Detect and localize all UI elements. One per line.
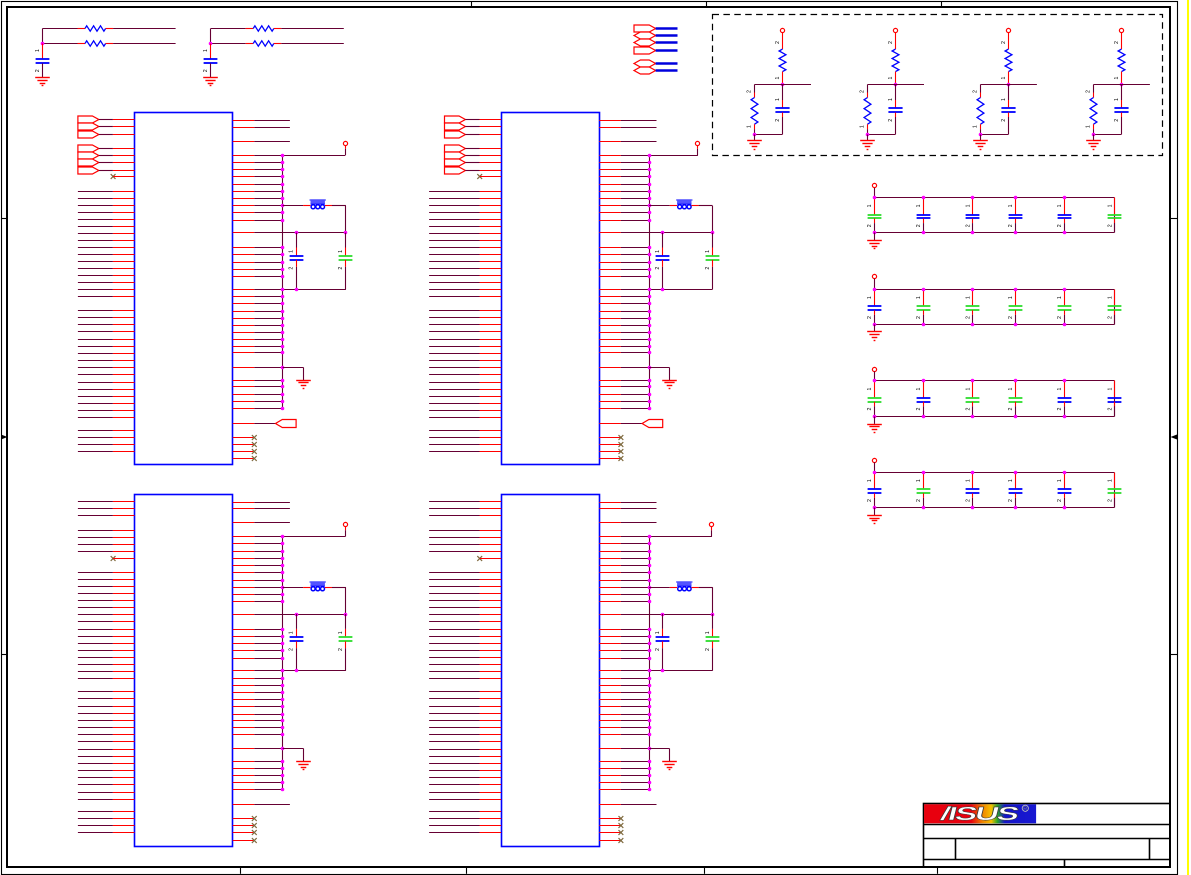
junction bank4 bottom 4 <box>1014 506 1018 510</box>
wire U4 right pin 23 <box>599 692 621 694</box>
svg-text:1: 1 <box>867 388 873 391</box>
wire U2 right pin 10 <box>599 198 621 200</box>
wire U3 left pin 1 <box>78 501 113 503</box>
junction U3 pin 10 <box>281 579 285 583</box>
wire U3 right pin 21 <box>233 678 255 680</box>
svg-text:1: 1 <box>888 76 894 79</box>
svg-text:1: 1 <box>1008 388 1014 391</box>
junction termination 2 <box>894 83 898 87</box>
junction U2 pin 23 <box>648 310 652 314</box>
wire U4 right pin 25 <box>599 706 621 708</box>
wire U3 right pin 9 <box>233 572 255 574</box>
junction U4 pin 22 <box>648 684 652 688</box>
wire U2 right pin 12 <box>599 212 621 214</box>
wire U1 left pin 29 <box>78 339 113 341</box>
junction bank3 top 3 <box>971 379 975 383</box>
yellow margin line <box>1187 0 1189 875</box>
wire U3 left pin 31 <box>78 734 113 736</box>
wire termination 4 output <box>1122 84 1150 86</box>
wire U4 right pin 20 decoupling rail bottom <box>599 670 621 672</box>
svg-text:2: 2 <box>966 499 972 502</box>
junction U1 pin 22 <box>281 302 285 306</box>
capacitor C U3 decoupling 1 <box>296 614 298 629</box>
U1 left pin 8 no-connect <box>111 174 116 179</box>
junction bank1 bottom 1 <box>873 231 877 235</box>
junction U3 pin 19 <box>281 657 285 661</box>
svg-text:2: 2 <box>1001 119 1007 122</box>
svg-text:2: 2 <box>1001 41 1007 44</box>
wire U4 left pin 10 <box>429 579 479 581</box>
wire U1 left pin 21 <box>78 275 113 277</box>
wire U4 right pin 24 <box>599 699 621 701</box>
zone tick bottom 2 <box>466 867 468 874</box>
wire U3 right pin 8 <box>233 565 255 567</box>
svg-text:1: 1 <box>867 204 873 207</box>
U3 right pin 37 no-connect <box>233 818 254 820</box>
wire termination 4 left branch <box>1094 84 1122 86</box>
capacitor C bank4 6 <box>1114 473 1116 490</box>
wire U2 right pin 34 <box>599 401 621 403</box>
wire U3 left pin 30 <box>78 727 113 729</box>
wire U3 left pin 12 <box>78 593 113 595</box>
junction U1 pin 27 <box>281 338 285 342</box>
capacitor C bank4 4 <box>1015 473 1017 490</box>
wire U4 left pin 43 <box>429 825 479 827</box>
U4 right pin 38 no-connect <box>599 825 620 827</box>
wire U1 left pin 18 <box>78 254 113 256</box>
wire U2 right pin 13 <box>599 220 621 222</box>
off-page connector symbol 2 <box>634 32 656 39</box>
wire cap bank 1 bottom rail <box>875 232 1115 234</box>
off-page connector symbol 3 <box>634 39 656 46</box>
resistor R termination 2 <box>867 93 869 98</box>
wire bank 3 to ground <box>874 417 876 424</box>
junction U1 pin 16 <box>281 253 285 257</box>
wire U3 left pin 29 <box>78 720 113 722</box>
wire U1 right pin 29 <box>233 352 255 354</box>
wire U2 left pin 18 <box>429 254 479 256</box>
junction U1 pin 26 <box>281 331 285 335</box>
wire U4 left pin 31 <box>429 734 479 736</box>
junction bank1 bottom 2 <box>922 231 926 235</box>
svg-text:2: 2 <box>867 499 873 502</box>
junction bank3 bottom 3 <box>971 415 975 419</box>
junction U2 pin 31 <box>648 379 652 383</box>
junction U2 bus row1 <box>648 154 652 158</box>
svg-text:2: 2 <box>867 316 873 319</box>
zone tick top 3 <box>941 1 943 7</box>
wire U1 right pin 1 <box>233 120 255 122</box>
junction U2 pin 6 <box>648 168 652 172</box>
output flag connector U1 <box>276 420 297 428</box>
wire U4 right pin 6 <box>599 551 621 553</box>
svg-text:1: 1 <box>289 250 295 253</box>
wire bank 1 to ground <box>874 233 876 241</box>
wire U2 left pin 11 <box>429 205 479 207</box>
capacitor C bank1 3 <box>972 198 974 215</box>
junction U4 cap1 bottom <box>661 669 665 673</box>
junction bank3 top 5 <box>1063 379 1067 383</box>
wire U2 right pin 14 decoupling rail top <box>599 232 621 234</box>
svg-text:2: 2 <box>1008 224 1014 227</box>
capacitor C bank1 4 <box>1015 198 1017 215</box>
wire U1 right pin 28 <box>233 346 255 348</box>
wire U2 left pin 41 <box>429 430 479 432</box>
junction U2 pin 9 <box>648 190 652 194</box>
wire cap bank 1 right edge <box>1114 198 1116 233</box>
bus stub wire 3 <box>656 41 678 44</box>
junction U2 pin 34 <box>648 400 652 404</box>
wire U2 left pin 35 <box>429 382 479 384</box>
wire U3 left pin 5 <box>78 537 113 539</box>
wire U3 left pin 14 <box>78 607 113 609</box>
svg-text:1: 1 <box>747 125 753 128</box>
junction U4 pin 8 <box>648 564 652 568</box>
svg-text:2: 2 <box>1114 41 1120 44</box>
junction U4 pin 15 <box>648 628 652 632</box>
terminal circle cap bank 2 <box>872 274 876 278</box>
junction bank2 bottom 2 <box>922 323 926 327</box>
zone tick bottom 4 <box>937 867 939 874</box>
U3 right pin 40 no-connect <box>233 840 254 842</box>
wire U1 left pin 19 <box>78 261 113 263</box>
title block divider 2 <box>924 838 1171 840</box>
svg-text:2: 2 <box>289 648 295 651</box>
wire RC2 lower out <box>274 43 282 45</box>
junction U2 cap1 top <box>661 231 665 235</box>
junction U4 pin 25 <box>648 705 652 709</box>
svg-text:1: 1 <box>1001 98 1007 101</box>
junction U3 pin 27 <box>281 719 285 723</box>
wire U2 left pin 13 <box>429 219 479 221</box>
wire U2 right pin 1 <box>599 120 621 122</box>
junction U4 cap2 top <box>711 613 715 617</box>
wire U2 right pin 32 <box>599 386 621 388</box>
U2 left pin 5 input flag connector <box>445 152 466 159</box>
wire U3 right pin 4 to terminal <box>233 536 255 538</box>
junction U3 pin 8 <box>281 564 285 568</box>
wire U4 left pin 36 <box>429 770 479 772</box>
junction RC1 <box>41 42 45 46</box>
wire U4 right pin 27 <box>599 720 621 722</box>
wire U1 left pin 22 <box>78 282 113 284</box>
junction bank2 bottom 3 <box>971 323 975 327</box>
wire U3 to ground <box>283 748 304 750</box>
wire termination 2 left branch <box>868 84 896 86</box>
dashed enclosure box <box>713 15 1163 156</box>
junction bank3 top 2 <box>922 379 926 383</box>
wire U1 left pin 33 <box>78 367 113 369</box>
wire U2 left pin 38 <box>429 403 479 405</box>
ground U3 <box>296 761 311 763</box>
wire ferrite bead to cap branch U3 <box>325 587 332 589</box>
svg-text:2: 2 <box>916 499 922 502</box>
svg-text:2: 2 <box>775 41 781 44</box>
wire RC1 lower out <box>106 43 114 45</box>
title block cell line a <box>955 838 957 860</box>
wire U3 right pin 15 <box>233 629 255 631</box>
wire U3 right pin 31 <box>233 761 255 763</box>
wire U1 left pin 16 <box>78 240 113 242</box>
svg-text:1: 1 <box>1114 76 1120 79</box>
wire U1 right pin 7 <box>233 176 255 178</box>
wire U2 left pin 12 <box>429 212 479 214</box>
wire U1 right pin 35 <box>233 408 255 410</box>
resistor R termination 1 <box>754 93 756 98</box>
junction U1 pin 29 <box>281 351 285 355</box>
wire U1 left pin 13 <box>78 219 113 221</box>
capacitor C U1 decoupling 1 <box>296 233 298 248</box>
wire U3 right pin 6 <box>233 551 255 553</box>
wire U3 right pin 7 <box>233 558 255 560</box>
junction termination 2 ground node <box>866 133 870 137</box>
wire U3 right pin 17 <box>233 643 255 645</box>
wire U4 right pin 16 <box>599 636 621 638</box>
svg-text:1: 1 <box>1086 125 1092 128</box>
junction U4 pin 30 <box>648 747 652 751</box>
wire U1 right pin 33 <box>233 394 255 396</box>
wire U4 right pin 19 <box>599 658 621 660</box>
U1 right pin 37 no-connect <box>233 437 254 439</box>
wire U2 left pin 43 <box>429 444 479 446</box>
wire U4 left pin 25 <box>429 691 479 693</box>
wire U4 left pin 44 <box>429 832 479 834</box>
junction bank1 top 4 <box>1014 196 1018 200</box>
wire U2 right pin 7 <box>599 176 621 178</box>
wire U3 right pin 23 <box>233 692 255 694</box>
wire U2 right pin 35 <box>599 408 621 410</box>
svg-text:1: 1 <box>966 296 972 299</box>
svg-text:2: 2 <box>289 267 295 270</box>
wire U1 left pin 3 <box>99 134 113 136</box>
junction U2 pin 18 <box>648 268 652 272</box>
wire U2 left pin 6 <box>465 162 479 164</box>
wire U2 right pin 28 <box>599 346 621 348</box>
wire to ground termination 2 <box>867 135 869 141</box>
terminal circle termination 3 <box>1006 28 1010 32</box>
wire U2 left pin 37 <box>429 396 479 398</box>
bus stub wire 1 <box>656 27 678 30</box>
junction U4 pin 5 <box>648 542 652 546</box>
capacitor C bank1 5 <box>1064 198 1066 215</box>
junction U1 bus row1 <box>281 154 285 158</box>
off-page connector symbol 4 <box>634 47 656 54</box>
capacitor C U4 decoupling 2 <box>712 614 714 629</box>
wire U3 right pin 5 <box>233 543 255 545</box>
wire U3 left pin 2 <box>78 508 113 510</box>
wire U3 left pin 15 <box>78 614 113 616</box>
wire U2 right pin 23 <box>599 311 621 313</box>
junction U3 pin 16 <box>281 635 285 639</box>
junction U3 cap2 top <box>344 613 348 617</box>
capacitor C U3 decoupling 2 <box>345 614 347 629</box>
wire U3 right pin 35 <box>233 789 255 791</box>
junction U1 pin 17 <box>281 261 285 265</box>
wire U1 left pin 4 <box>99 148 113 150</box>
junction U4 cap1 top <box>661 613 665 617</box>
wire RC1 upper out <box>106 28 114 30</box>
junction U4 pin 11 <box>648 586 652 590</box>
wire termination 1 bottom <box>755 134 783 136</box>
ground cap bank 3 <box>867 424 882 426</box>
wire termination 2 bottom <box>868 134 896 136</box>
junction U1 pin 7 <box>281 175 285 179</box>
svg-text:1: 1 <box>966 479 972 482</box>
svg-text:1: 1 <box>775 98 781 101</box>
wire U1 left pin 35 <box>78 382 113 384</box>
wire U1 right pin 26 <box>233 332 255 334</box>
wire U3 left pin 19 <box>78 643 113 645</box>
wire U3 left pin 3 <box>78 515 113 517</box>
wire U1 power bus vertical <box>282 155 284 408</box>
U1 left pin 1 input flag connector <box>78 116 99 123</box>
svg-text:1: 1 <box>916 388 922 391</box>
junction bank1 top 2 <box>922 196 926 200</box>
wire U1 left pin 10 <box>78 198 113 200</box>
resistor R lower RC1 <box>85 41 106 46</box>
junction bank1 bottom 3 <box>971 231 975 235</box>
wire U3 right pin 29 <box>233 734 255 736</box>
wire U4 left pin 23 <box>429 671 479 673</box>
junction U1 pin 28 <box>281 345 285 349</box>
wire U4 left pin 27 <box>429 706 479 708</box>
svg-text:2: 2 <box>705 267 711 270</box>
wire U4 left pin 14 <box>429 607 479 609</box>
wire U3 left pin 42 <box>78 818 113 820</box>
junction U3 pin 35 <box>281 788 285 792</box>
wire U4 right pin 7 <box>599 558 621 560</box>
wire RC2 lower net <box>211 43 246 45</box>
junction U2 pin 26 <box>648 331 652 335</box>
wire termination 3 output <box>1009 84 1037 86</box>
title block divider 3 <box>924 859 1171 861</box>
wire U3 left pin 27 <box>78 706 113 708</box>
svg-text:2: 2 <box>888 41 894 44</box>
junction bank1 bottom 5 <box>1063 231 1067 235</box>
capacitor C bank2 4 <box>1015 290 1017 307</box>
wire U3 right pin 27 <box>233 720 255 722</box>
resistor R termination 4 <box>1093 93 1095 98</box>
wire termination 2 output <box>896 84 925 86</box>
wire cap bank 1 top rail <box>875 197 1115 199</box>
U1 left pin 3 input flag connector <box>78 131 99 138</box>
wire U2 left pin 31 <box>429 353 479 355</box>
junction U4 pin 17 <box>648 642 652 646</box>
wire U3 right pin 30 ground feed <box>233 748 255 750</box>
wire U1 right pin 11 inductor feed <box>233 205 255 207</box>
U2 right pin 40 no-connect <box>599 458 620 460</box>
wire U4 right pin 18 <box>599 650 621 652</box>
junction U3 pin 30 <box>281 747 285 751</box>
capacitor C RC filter 2 <box>210 44 212 60</box>
junction U1 pin 31 <box>281 379 285 383</box>
wire U1 right pin 19 <box>233 276 255 278</box>
capacitor C termination 2 <box>895 85 897 101</box>
junction bank2 top 4 <box>1014 288 1018 292</box>
zone tick right 2 <box>1170 654 1177 656</box>
wire cap bank 3 bottom rail <box>875 416 1115 418</box>
junction bank3 bottom 4 <box>1014 415 1018 419</box>
wire cap bank 3 right edge <box>1114 381 1116 417</box>
svg-text:1: 1 <box>860 125 866 128</box>
wire U4 left pin 28 <box>429 713 479 715</box>
wire U2 left pin 14 <box>429 226 479 228</box>
wire termination 1 output <box>783 84 812 86</box>
svg-text:2: 2 <box>655 648 661 651</box>
wire U3 right pin 1 <box>233 502 255 504</box>
svg-text:1: 1 <box>1008 479 1014 482</box>
wire U3 left pin 40 <box>78 799 113 801</box>
wire U2 left pin 36 <box>429 389 479 391</box>
terminal circle termination 1 <box>780 28 784 32</box>
capacitor C bank3 5 <box>1064 381 1066 398</box>
svg-text:1: 1 <box>1108 388 1114 391</box>
wire U2 left pin 25 <box>429 310 479 312</box>
wire U3 right pin 33 <box>233 775 255 777</box>
wire U2 right pin 19 <box>599 276 621 278</box>
wire U2 left pin 29 <box>429 339 479 341</box>
svg-text:2: 2 <box>867 407 873 410</box>
junction U3 pin 13 <box>281 600 285 604</box>
resistor R upper RC1 <box>85 26 106 31</box>
junction U4 pin 7 <box>648 557 652 561</box>
junction U2 pin 5 <box>648 161 652 165</box>
wire U4 left pin 40 <box>429 799 479 801</box>
wire cap bank 2 top rail <box>875 289 1115 291</box>
U1 left pin 5 input flag connector <box>78 152 99 159</box>
wire U4 left pin 18 <box>429 636 479 638</box>
svg-text:1: 1 <box>1001 76 1007 79</box>
terminal circle termination 2 <box>893 28 897 32</box>
wire U1 left pin 39 <box>78 410 113 412</box>
wire cap bank 4 top rail <box>875 472 1115 474</box>
wire U4 right pin 12 <box>599 594 621 596</box>
wire U1 left pin 9 <box>78 191 113 193</box>
wire U3 right pin 24 <box>233 699 255 701</box>
U2 left pin 8 no-connect <box>477 174 482 179</box>
wire U3 left pin 23 <box>78 671 113 673</box>
wire U1 right pin 4 to terminal <box>233 155 255 157</box>
wire U4 left pin 24 <box>429 678 479 680</box>
wire U1 right pin 36 <box>233 423 255 425</box>
wire U4 left pin 32 <box>429 741 479 743</box>
capacitor C bank2 5 <box>1064 290 1066 307</box>
wire U2 left pin 16 <box>429 240 479 242</box>
svg-text:1: 1 <box>1008 296 1014 299</box>
terminal circle U1 power input <box>343 141 347 145</box>
wire U1 left pin 32 <box>78 360 113 362</box>
wire U3 left pin 18 <box>78 636 113 638</box>
svg-text:1: 1 <box>1108 296 1114 299</box>
svg-text:2: 2 <box>655 267 661 270</box>
svg-text:2: 2 <box>705 648 711 651</box>
wire U1 left pin 5 <box>99 155 113 157</box>
junction U1 pin 32 <box>281 385 285 389</box>
svg-text:1: 1 <box>888 98 894 101</box>
wire to ground termination 1 <box>754 135 756 141</box>
title block cell line c <box>1064 860 1066 867</box>
wire U2 right pin 33 <box>599 394 621 396</box>
wire U2 left pin 2 <box>465 126 479 128</box>
wire U3 right pin 32 <box>233 768 255 770</box>
wire U3 left pin 16 <box>78 621 113 623</box>
junction U4 pin 33 <box>648 774 652 778</box>
wire U1 right pin 8 <box>233 184 255 186</box>
wire termination 4 bottom <box>1094 134 1122 136</box>
wire U1 right pin 13 <box>233 220 255 222</box>
wire U3 power bus vertical <box>282 537 284 790</box>
ferrite bead L U1 <box>311 199 325 204</box>
